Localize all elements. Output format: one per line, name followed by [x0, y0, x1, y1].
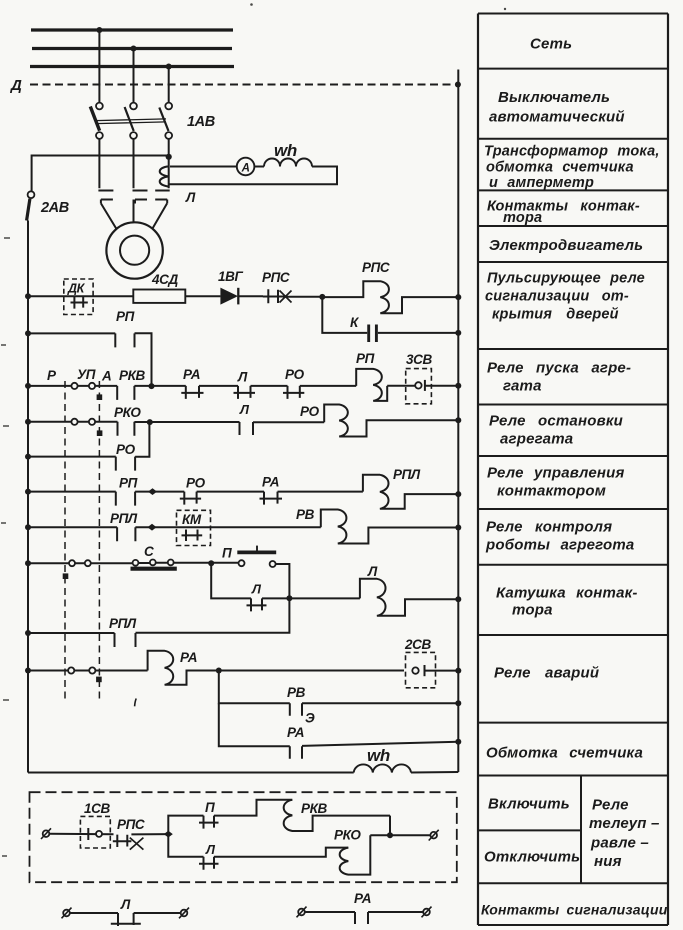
relay coil РКО	[340, 835, 371, 874]
svg-text:Д: Д	[9, 77, 22, 94]
svg-text:Реле аварий: Реле аварий	[494, 665, 599, 682]
switch column Р dashed	[64, 381, 66, 700]
svg-text:Электродвигатель: Электродвигатель	[489, 237, 643, 254]
svg-text:роботы агрегота: роботы агрегота	[485, 537, 634, 554]
wire to rail	[302, 702, 458, 704]
wire	[254, 166, 264, 168]
terminal right	[429, 830, 439, 841]
wire	[214, 848, 348, 857]
wire merge right	[389, 816, 391, 836]
wire	[131, 833, 168, 835]
wire to rail	[425, 385, 458, 387]
wire below breaker	[99, 139, 168, 188]
legend: Обмотка счетчика	[486, 745, 643, 762]
svg-text:Выключатель: Выключатель	[498, 89, 610, 106]
svg-text:РКВ: РКВ	[301, 801, 328, 816]
terminal mark	[148, 488, 157, 495]
svg-text:1ВГ: 1ВГ	[218, 269, 243, 284]
УП position mark	[97, 430, 103, 436]
svg-text:Э: Э	[305, 711, 315, 726]
legend: Пульсирующее реле	[485, 271, 645, 323]
svg-text:П: П	[222, 546, 232, 561]
wire tap to 2АВ	[32, 156, 169, 192]
wire output	[370, 834, 430, 836]
node left rail row 3	[25, 383, 31, 389]
contact РПЛ break	[117, 527, 135, 541]
legend: Реле остановки агрегата	[489, 413, 623, 448]
relay coil РКВ	[284, 800, 390, 831]
node left rail row 8	[25, 560, 31, 566]
node left rail row 4	[25, 419, 31, 425]
contact РА	[260, 492, 283, 505]
wire	[135, 491, 184, 493]
motor	[106, 222, 162, 278]
node rail	[455, 700, 461, 706]
svg-text:Обмотка счетчика: Обмотка счетчика	[486, 745, 643, 762]
wire	[135, 526, 320, 528]
svg-text:wh: wh	[274, 141, 297, 160]
wire to rail	[425, 670, 459, 672]
relay coil РП	[356, 369, 387, 401]
current transformer winding	[160, 157, 169, 188]
wire row 4 left	[28, 421, 118, 423]
wire row 8 left	[28, 562, 239, 565]
node left rail row 6	[25, 489, 31, 495]
wire	[49, 833, 113, 836]
legend: Электродвигатель	[489, 237, 643, 254]
node rail	[455, 525, 461, 531]
svg-text:А: А	[241, 162, 250, 174]
switch column УП dashed	[98, 381, 100, 700]
wire to motor	[101, 200, 167, 230]
legend: Сеть	[530, 36, 572, 53]
svg-text:телеуп –: телеуп –	[589, 815, 660, 832]
contact Л	[234, 386, 256, 399]
terminal	[422, 907, 432, 918]
svg-text:Л: Л	[120, 897, 131, 912]
node branch	[216, 668, 222, 674]
wire	[305, 911, 355, 913]
switch contact	[68, 667, 74, 673]
node left rail row 7	[25, 524, 31, 530]
svg-text:Реле пуска агре-: Реле пуска агре-	[487, 360, 631, 377]
contactor coil Л	[360, 579, 458, 616]
svg-text:РО: РО	[186, 476, 206, 491]
contact РКО break	[118, 422, 135, 436]
door contact ДК	[64, 279, 93, 315]
svg-text:Л: Л	[251, 582, 262, 597]
wire	[238, 295, 263, 297]
legend table frame	[478, 14, 668, 926]
svg-text:С: С	[144, 544, 154, 559]
svg-text:А: А	[101, 369, 111, 384]
wire row 2	[28, 332, 115, 334]
legend: Контакты сигнализации	[481, 902, 668, 918]
svg-text:Л: Л	[239, 402, 250, 417]
svg-text:РП: РП	[116, 309, 135, 324]
node	[149, 383, 155, 389]
svg-text:Катушка контак-: Катушка контак-	[496, 585, 638, 602]
contact РА break	[290, 746, 302, 759]
wire	[197, 491, 264, 493]
node phase3 tap	[166, 154, 172, 160]
wire	[134, 912, 181, 914]
svg-text:РКО: РКО	[114, 405, 141, 420]
svg-text:РПЛ: РПЛ	[393, 467, 421, 482]
wire phase 1 drop	[98, 30, 100, 103]
svg-text:Л: Л	[185, 190, 196, 205]
svg-text:Отключить: Отключить	[484, 849, 580, 866]
УП position mark	[97, 394, 103, 400]
wire rise to РКО row	[135, 422, 149, 457]
node rail	[455, 491, 461, 497]
contact РКВ break	[117, 386, 134, 400]
contact РВ break	[290, 703, 302, 716]
terminal	[297, 907, 307, 918]
svg-text:3СВ: 3СВ	[406, 352, 432, 367]
svg-text:крытия дверей: крытия дверей	[492, 307, 619, 323]
wire ammeter loop top	[170, 166, 237, 168]
button С	[131, 560, 177, 569]
margin marks	[1, 238, 10, 856]
node bus L1 tap	[96, 27, 102, 33]
wire row 4 mid	[134, 421, 239, 423]
wire ammeter loop return	[169, 167, 337, 185]
node bus L2 tap	[131, 46, 137, 52]
lamp 1СВ	[80, 816, 110, 848]
node split	[319, 294, 325, 300]
node	[286, 595, 292, 601]
wire	[262, 597, 360, 599]
bus L1	[31, 28, 233, 31]
wire bottom right	[411, 771, 458, 774]
dashed control line Д	[30, 84, 457, 86]
svg-text:РКО: РКО	[334, 828, 361, 843]
wire	[253, 421, 324, 423]
wire	[300, 385, 356, 387]
svg-text:Реле управления: Реле управления	[487, 465, 625, 482]
bus L3	[30, 65, 234, 68]
wire coil to 3СВ	[387, 385, 415, 387]
switch position mark С row	[63, 573, 69, 579]
svg-text:контактором: контактором	[497, 483, 606, 500]
lamp 3СВ	[406, 369, 432, 404]
node rail	[455, 596, 461, 602]
node rail	[455, 668, 461, 674]
wire rise to Л node	[136, 598, 290, 633]
svg-text:гата: гата	[503, 378, 542, 395]
contact Л	[199, 857, 219, 870]
legend: Катушка контактора	[496, 585, 638, 619]
svg-text:КМ: КМ	[182, 512, 202, 527]
svg-text:РПС: РПС	[362, 260, 390, 275]
wire	[199, 385, 238, 387]
resistor 4СД	[133, 290, 185, 303]
svg-text:Л: Л	[367, 564, 378, 579]
svg-text:Включить: Включить	[488, 796, 570, 813]
contact РО break	[116, 457, 135, 471]
svg-text:4СД: 4СД	[151, 272, 178, 287]
node left rail row 2	[25, 330, 31, 336]
wire row 5	[28, 456, 116, 458]
legend: Трансформатор тока	[484, 144, 660, 192]
switch contact	[89, 667, 95, 673]
svg-text:РПЛ: РПЛ	[110, 511, 138, 526]
contact Л break	[240, 422, 254, 435]
switch contact	[85, 560, 91, 566]
switch contact Р	[71, 383, 77, 389]
counter winding wh (bottom)	[354, 764, 411, 772]
wire	[278, 491, 363, 493]
counter winding wh (top)	[264, 159, 312, 167]
УП position mark	[96, 677, 102, 683]
commutator КМ	[177, 510, 211, 545]
svg-text:1СВ: 1СВ	[84, 801, 110, 816]
ammeter А	[237, 158, 255, 176]
terminal mark	[148, 524, 157, 531]
wire	[185, 295, 220, 297]
legend: Контакты контактора	[487, 199, 640, 227]
wire row 6 left	[28, 491, 116, 493]
node П branch	[208, 560, 214, 566]
node rail	[455, 739, 461, 745]
legend: Реле телеуправления	[589, 797, 660, 871]
small mark	[135, 699, 137, 707]
svg-text:Реле остановки: Реле остановки	[489, 413, 623, 430]
legend: Отключить	[484, 849, 580, 866]
svg-text:Р: Р	[47, 368, 57, 383]
relay coil РВ	[321, 510, 459, 544]
svg-text:РП: РП	[119, 476, 138, 491]
svg-text:РВ: РВ	[296, 507, 315, 522]
right rail	[457, 70, 459, 773]
svg-text:Л: Л	[237, 370, 248, 385]
svg-text:РО: РО	[116, 442, 136, 457]
svg-text:РА: РА	[354, 891, 371, 906]
wire row 3 left	[28, 385, 117, 387]
svg-text:РП: РП	[356, 351, 375, 366]
wire	[214, 800, 292, 816]
switch contact УП	[89, 383, 95, 389]
node Д line	[455, 82, 461, 88]
svg-text:2АВ: 2АВ	[40, 200, 69, 216]
diode 1ВГ	[220, 288, 238, 305]
wire row 3 mid	[134, 385, 185, 387]
svg-text:РО: РО	[285, 367, 305, 382]
relay coil РА	[148, 651, 404, 685]
svg-text:РА: РА	[180, 650, 197, 665]
svg-text:РА: РА	[183, 367, 200, 382]
node	[387, 832, 393, 838]
legend: Включить	[488, 796, 570, 813]
node bus L3 tap	[166, 64, 172, 70]
svg-text:Л: Л	[205, 842, 216, 857]
button П break	[237, 546, 276, 567]
svg-text:ния: ния	[594, 853, 622, 870]
lamp 2СВ	[406, 652, 436, 687]
wire phase 2 drop	[133, 49, 135, 103]
relay coil РПЛ	[363, 475, 458, 509]
node branch РО	[147, 419, 153, 425]
wire row 7 left	[28, 526, 117, 528]
svg-text:УП: УП	[77, 367, 96, 382]
svg-text:1АВ: 1АВ	[187, 114, 215, 130]
terminal	[179, 908, 189, 919]
contact РП break	[115, 333, 134, 347]
wire drop to РКВ row	[135, 333, 152, 386]
wire row 9	[28, 632, 115, 634]
node left rail row 1	[25, 293, 31, 299]
svg-text:РПС: РПС	[262, 270, 290, 285]
wire	[70, 912, 118, 914]
contact РА signal break	[355, 912, 368, 924]
wire drop from РА row	[219, 671, 290, 704]
wire phase 3 drop	[168, 67, 170, 103]
node left rail row 5	[25, 454, 31, 460]
contact РП break	[116, 492, 135, 506]
svg-text:wh: wh	[367, 746, 390, 765]
svg-text:РВ: РВ	[287, 685, 306, 700]
svg-text:автоматический: автоматический	[489, 109, 625, 126]
node rail	[455, 383, 461, 389]
svg-text:тора: тора	[512, 602, 553, 619]
switch contact Р	[71, 419, 77, 425]
svg-text:обмотка счетчика: обмотка счетчика	[486, 160, 634, 176]
svg-text:и амперметр: и амперметр	[489, 175, 594, 191]
contactor main contacts Л	[98, 191, 169, 204]
terminal left	[41, 828, 51, 839]
terminal	[62, 908, 72, 919]
svg-text:2СВ: 2СВ	[404, 637, 431, 652]
wire С branch down	[211, 563, 251, 598]
telecontrol boundary	[30, 792, 457, 882]
switch 2АВ	[27, 191, 35, 220]
wire	[284, 296, 323, 298]
speck	[250, 3, 253, 6]
relay coil РПС	[322, 281, 456, 313]
svg-text:тора: тора	[503, 210, 542, 226]
svg-text:РПЛ: РПЛ	[109, 616, 137, 631]
switch contact УП	[89, 419, 95, 425]
contact РПС with blocking cross	[263, 289, 292, 303]
svg-text:Контакты сигнализации: Контакты сигнализации	[481, 902, 668, 918]
legend: Реле управления контактором	[487, 465, 625, 500]
svg-text:Пульсирующее реле: Пульсирующее реле	[487, 271, 645, 287]
svg-text:равле –: равле –	[590, 835, 649, 852]
wire drop 2	[219, 703, 290, 746]
capacitor К	[322, 297, 458, 342]
wire upper branch	[168, 816, 203, 835]
node left rail row 10	[25, 668, 31, 674]
left rail	[27, 221, 29, 773]
svg-text:агрегата: агрегата	[500, 431, 573, 448]
relay coil РО	[324, 405, 458, 437]
svg-text:Трансформатор тока,: Трансформатор тока,	[484, 144, 660, 160]
contact РО	[283, 386, 304, 399]
svg-text:РО: РО	[300, 404, 320, 419]
node rail	[455, 417, 461, 423]
svg-text:Реле: Реле	[592, 797, 629, 814]
svg-text:РА: РА	[262, 475, 279, 490]
node rail	[455, 294, 461, 300]
wire П to node	[276, 564, 290, 598]
legend: Реле контроля работы	[485, 519, 634, 554]
terminal mark	[164, 831, 173, 838]
bus L2	[32, 47, 232, 50]
contact РПС with blocking cross	[113, 835, 144, 850]
legend: Реле аварий	[494, 665, 599, 682]
svg-text:РПС: РПС	[117, 817, 145, 832]
node rail	[455, 330, 461, 336]
wire	[368, 911, 423, 913]
svg-text:П: П	[205, 800, 215, 815]
svg-text:Реле контроля: Реле контроля	[486, 519, 612, 536]
contact Л signal	[111, 913, 141, 926]
wire bottom left	[28, 772, 354, 774]
contact Л	[247, 598, 267, 611]
breaker 1АВ	[90, 103, 172, 139]
svg-text:ДК: ДК	[67, 282, 86, 296]
contact РПЛ break	[115, 633, 136, 647]
svg-text:РКВ: РКВ	[119, 368, 146, 383]
node left rail row 9	[25, 630, 31, 636]
svg-text:РА: РА	[287, 725, 304, 740]
wire	[251, 385, 288, 387]
wire row 10 left	[28, 670, 148, 672]
switch contact	[69, 560, 75, 566]
wire lower branch	[168, 834, 203, 857]
contact РА	[181, 386, 203, 399]
svg-text:Сеть: Сеть	[530, 36, 572, 53]
wire to rail	[302, 742, 458, 746]
legend: Выключатель автоматический	[489, 89, 625, 126]
contact П	[199, 816, 219, 829]
svg-text:сигнализации от-: сигнализации от-	[485, 289, 629, 305]
contact РО	[180, 492, 201, 505]
wire row 1	[28, 295, 133, 297]
legend: Реле пуска агрегата	[487, 360, 631, 395]
